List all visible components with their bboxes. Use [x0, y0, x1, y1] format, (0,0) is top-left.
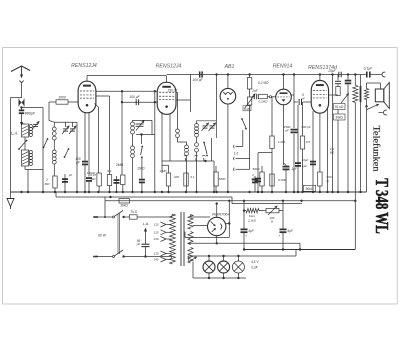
B+ rail: [105, 200, 355, 202]
resistor 0,1MOhm row: [270, 174, 274, 186]
wire: [337, 120, 339, 192]
wire filament: [216, 236, 218, 244]
boxed label 0,05: [243, 106, 251, 111]
svg-text:Fero: Fero: [249, 214, 256, 218]
svg-text:0,2A: 0,2A: [251, 266, 258, 270]
svg-text:150: 150: [154, 237, 159, 241]
lamp bus top: [188, 255, 296, 257]
contact rail: [162, 160, 214, 162]
wire: [27, 170, 29, 193]
tube V3 AB1 duodiode: [220, 88, 236, 104]
svg-text:Telefunken: Telefunken: [371, 126, 382, 172]
wire: [196, 152, 198, 192]
wire V5 top cap: [319, 75, 321, 81]
resistor 1MOhm grid leak: [271, 97, 273, 137]
wire switch riser: [242, 130, 244, 147]
wire lower to transformer: [122, 255, 124, 257]
resistor 0,5MOhm: [302, 102, 304, 136]
speaker LS1 magnet: [375, 89, 384, 102]
wire screen feed: [332, 75, 334, 193]
wire coupling riser: [121, 91, 123, 175]
resistor 500 Ohm cathode: [312, 160, 314, 192]
svg-text:200: 200: [173, 175, 179, 179]
svg-text:0,1MΩ: 0,1MΩ: [259, 100, 269, 104]
resistor 30kOhm in B+ rail: [119, 199, 130, 203]
transformer secondary tube heater: [188, 248, 193, 264]
band filter 1 top line: [133, 119, 153, 121]
resistor 1MOhm right: [337, 85, 339, 87]
wire V1 anode to V2 grid line A: [96, 90, 158, 92]
wire V1 screen: [96, 95, 110, 97]
wire: [98, 186, 100, 192]
coil rail cluster B: [54, 121, 77, 123]
svg-text:51 kΩ: 51 kΩ: [335, 105, 344, 109]
coil L7 detector primary: [196, 121, 198, 124]
tube V2 RENS12J4: [157, 82, 176, 114]
wire riser: [211, 138, 213, 161]
svg-text:µF: µF: [301, 97, 305, 101]
potentiometer tone with arrow: [341, 94, 349, 104]
wire anode right: [226, 223, 229, 225]
wire with arrow to coil: [21, 114, 23, 123]
wire V2 anode: [176, 91, 178, 93]
svg-text:0,1: 0,1: [107, 169, 112, 173]
wire V5 anode right: [329, 94, 338, 96]
svg-text:1µF: 1µF: [302, 164, 307, 168]
switch S1 wave band: [64, 156, 66, 158]
svg-text:1,6: 1,6: [234, 152, 239, 156]
wire V6 top: [216, 204, 218, 218]
svg-text:2,1kΩ: 2,1kΩ: [247, 219, 257, 223]
resistor 5000: [214, 172, 218, 186]
switch S wave band filter: [141, 146, 143, 148]
rail end riser: [213, 161, 215, 192]
svg-text:1000: 1000: [58, 96, 66, 100]
lamp La2: [218, 261, 230, 273]
wire V2 screen: [176, 99, 191, 101]
coil L1 RF coil: [53, 122, 55, 127]
capacitor 1uF anode: [297, 105, 299, 192]
switch S3: [203, 142, 205, 144]
capacitor uF feedback: [347, 75, 349, 80]
tube V4 REN914: [276, 89, 292, 105]
capacitor divider: [252, 179, 258, 181]
svg-text:Th.S: Th.S: [130, 210, 138, 214]
wire tube tops link: [87, 75, 166, 77]
capacitor 0,1uF top: [337, 75, 339, 81]
svg-text:125: 125: [154, 231, 159, 235]
capacitor 100pF series in bus: [199, 71, 201, 77]
wire lamp bus right: [295, 250, 297, 257]
svg-text:60 W: 60 W: [98, 234, 107, 238]
tube V5 RENS1374d: [311, 81, 328, 114]
switch S2 wave band: [43, 147, 45, 149]
svg-text:µF: µF: [69, 173, 73, 177]
wire riser to band filter 2: [216, 75, 218, 121]
frame band filter 2: [197, 120, 217, 122]
wire left rail top: [11, 97, 22, 99]
capacitor 4uF first: [243, 211, 245, 229]
wire frame right: [42, 108, 44, 193]
ground bus right corner: [366, 191, 368, 193]
coil loop secondary upper: [29, 125, 32, 128]
resistor 200: [166, 173, 170, 186]
resistor 0,1: [184, 173, 188, 186]
contact hook 2: [233, 157, 236, 160]
transformer secondary HV winding: [188, 215, 193, 230]
jack connector lower right: [383, 110, 386, 115]
tube V6 RGN7064: [208, 217, 226, 235]
contact fork 2: [195, 158, 197, 161]
contact hook 1: [233, 145, 236, 148]
svg-text:110: 110: [154, 223, 159, 227]
coil L3 band filter: [131, 122, 135, 126]
wire frame bottom: [28, 169, 43, 171]
svg-text:25pF: 25pF: [327, 69, 336, 73]
transformer frame: [367, 82, 381, 84]
switch linkage double bar: [117, 214, 119, 255]
antenna A1: [11, 66, 30, 72]
mains terminal lower: [94, 256, 99, 258]
wire to V2 grid: [155, 101, 158, 103]
wire left rail: [10, 98, 12, 193]
wire AB1 cathode: [227, 104, 229, 192]
wire coil to resistor: [53, 164, 55, 176]
resistor 1000 grid stopper: [56, 100, 68, 104]
tap arrow on heater winding: [189, 257, 197, 262]
wire V2 cathode: [161, 112, 163, 173]
svg-text:100 µF: 100 µF: [193, 78, 204, 82]
wire: [76, 122, 78, 192]
wire V5 cathode: [312, 111, 314, 160]
svg-text:10µF: 10µF: [302, 158, 309, 162]
resistor 0,2MOhm: [249, 75, 251, 78]
wire: [249, 89, 251, 97]
svg-text:50kΩ: 50kΩ: [252, 167, 260, 171]
resistor 0,1MOhm series: [258, 94, 267, 98]
wire V5 pin: [319, 113, 321, 172]
wire HV to anode lower: [193, 225, 208, 227]
wire top bus right: [370, 74, 382, 76]
resistor 1MOhm: [53, 176, 57, 188]
wire AB1 top: [227, 75, 229, 89]
svg-text:pF: pF: [284, 129, 289, 133]
capacitor 10uF cathode bypass: [310, 161, 316, 163]
capacitor 56pF: [142, 243, 150, 245]
svg-text:4,5 V: 4,5 V: [251, 260, 259, 264]
resistor zigzag output load: [354, 73, 356, 75]
svg-text:1 MΩ: 1 MΩ: [159, 169, 167, 173]
wire switch feed: [104, 201, 106, 217]
right riser: [354, 201, 356, 250]
variable capacitor antenna trimmer: [19, 100, 22, 106]
coil L4 secondary: [132, 134, 134, 146]
svg-text:RGN7064: RGN7064: [212, 211, 231, 216]
resistor 2MOhm: [121, 175, 125, 185]
svg-text:L.A.: L.A.: [11, 131, 18, 136]
capacitor 1uF cathode: [283, 166, 290, 168]
switch loop antenna: [18, 148, 20, 150]
svg-text:0,1µF: 0,1µF: [364, 67, 374, 71]
contact fork 3: [203, 158, 205, 161]
wire: [54, 188, 56, 192]
potentiometer hum with arrow: [367, 104, 379, 109]
resistor 0,15MOhm: [97, 173, 101, 186]
switch S5 arm: [241, 118, 243, 120]
svg-text:5000: 5000: [219, 177, 226, 181]
resistor 0,1MOhm: [107, 175, 111, 186]
svg-text:240: 240: [153, 258, 159, 262]
mains terminal upper: [94, 216, 99, 218]
svg-text:210: 210: [153, 252, 159, 256]
capacitor block mid: [116, 176, 118, 192]
wire V4 cathode: [283, 105, 285, 165]
svg-text:MΩ: MΩ: [91, 177, 96, 181]
wire coil link: [24, 137, 26, 150]
svg-text:30kΩ: 30kΩ: [335, 116, 343, 120]
jack connector top right: [382, 72, 385, 77]
svg-text:880pF: 880pF: [25, 112, 36, 116]
bus 2: [56, 196, 232, 198]
svg-text:L.A.: L.A.: [143, 222, 149, 226]
junction dots on ground bus: [20, 191, 22, 193]
wire: [172, 214, 173, 217]
capacitor 5000pF coupling: [294, 101, 298, 103]
wire pot down: [249, 105, 251, 169]
coil L6 IF transformer 2: [176, 129, 180, 133]
lamp bus bottom: [193, 277, 246, 279]
svg-text:MΩ: MΩ: [45, 182, 50, 186]
top bus: [167, 74, 367, 76]
capacitor 100pF coupling: [135, 99, 137, 105]
wire to transformer: [137, 216, 171, 218]
capacitor blocking: [64, 174, 66, 192]
wire V1 pin right: [95, 104, 99, 108]
resistor 50kOhm boxed label: [304, 185, 316, 191]
trimmer capacitor C3: [72, 122, 74, 127]
wire antenna branch: [22, 107, 44, 109]
heater line to right: [188, 242, 300, 244]
contact fork 1: [185, 158, 187, 161]
wire coil link: [53, 140, 55, 150]
svg-text:RENS12J4: RENS12J4: [71, 63, 97, 69]
choke field coil Fero 2,1kOhm: [243, 201, 245, 211]
wire V1 pin2: [88, 113, 90, 177]
svg-text:RENS12J4: RENS12J4: [156, 63, 182, 69]
grid line C: [122, 101, 155, 103]
lamp La1: [203, 261, 215, 273]
svg-text:100 µF: 100 µF: [129, 95, 140, 99]
wire V2 pin: [169, 114, 171, 162]
wire V4 anode: [291, 94, 294, 96]
wire coil bottom: [24, 166, 26, 170]
band filter 1 return line: [136, 134, 155, 136]
capacitor 2nF: [253, 94, 255, 100]
capacitor 100pF cathode: [82, 161, 88, 163]
svg-text:0,1: 0,1: [191, 175, 195, 179]
transformer T1 primary winding: [170, 214, 176, 264]
ground bus main: [11, 191, 367, 193]
ground symbol: [10, 192, 12, 199]
coil LA2 loop antenna lower: [21, 150, 28, 166]
wire to V4 grid: [267, 96, 269, 98]
wire: [186, 156, 188, 193]
capacitor 2500pF anode: [291, 129, 298, 131]
resistor 51kOhm boxed: [334, 104, 346, 110]
lamp La3: [232, 261, 244, 273]
coil L2 RF coil: [52, 150, 56, 154]
svg-text:30kΩ: 30kΩ: [120, 204, 128, 208]
capacitor 1uF row: [257, 153, 259, 192]
resistor 30kOhm boxed: [334, 114, 346, 120]
svg-text:0,2 MΩ: 0,2 MΩ: [258, 81, 269, 85]
wire center tap riser: [228, 201, 230, 238]
switch S6 mains lower: [113, 256, 115, 258]
wire: [68, 101, 78, 103]
coil L6b: [185, 145, 189, 149]
wire: [109, 186, 111, 193]
trimmer capacitor Ct1: [203, 125, 208, 127]
trimmer capacitor band filter: [136, 123, 144, 125]
band filter 1 right side: [151, 120, 153, 134]
svg-text:pF: pF: [136, 242, 141, 246]
arrow pilot: [145, 231, 147, 244]
capacitor block: [139, 179, 145, 181]
wire: [84, 165, 86, 192]
wire V5 anode: [327, 108, 329, 192]
page border: [3, 48, 398, 305]
wire V1 top cap: [86, 76, 88, 82]
wire coil jog: [178, 138, 187, 146]
wire V2 top cap: [166, 76, 168, 83]
speaker LS1 cone: [384, 83, 390, 109]
transformer core: [180, 212, 182, 266]
wire riser to band filter: [154, 91, 156, 192]
svg-text:+: +: [278, 234, 280, 238]
trimmer capacitor Ct2: [210, 125, 215, 127]
coil loop secondary lower: [29, 151, 32, 154]
contact hook 3: [233, 168, 236, 171]
wire V4 top: [283, 75, 285, 90]
wire speaker return: [366, 106, 368, 192]
svg-text:0,5: 0,5: [306, 140, 311, 144]
trimmer capacitor C2: [65, 122, 67, 127]
wire antenna lead: [21, 82, 23, 98]
svg-text:2nF: 2nF: [251, 89, 259, 93]
wire grid line V1: [49, 101, 56, 103]
potentiometer 100 Ohm: [259, 210, 266, 212]
svg-text:0,1MΩ: 0,1MΩ: [278, 178, 287, 182]
B+ rail lower: [232, 203, 302, 205]
potentiometer volume vertical with arrow: [247, 97, 251, 105]
svg-text:2MΩ: 2MΩ: [136, 167, 145, 171]
svg-text:AB1: AB1: [224, 64, 235, 70]
wire V1 cathode: [84, 113, 86, 161]
wire HV to anode upper: [190, 215, 192, 218]
fuse Th.S: [122, 216, 124, 218]
svg-text:T 348 WL: T 348 WL: [372, 178, 392, 234]
wire switch down: [141, 157, 143, 178]
coil LA1 loop antenna upper: [21, 124, 28, 137]
capacitor 880pF: [19, 109, 25, 111]
capacitor bar element: [360, 75, 362, 87]
transformer primary taps: [161, 222, 167, 225]
wire: [282, 201, 284, 229]
wire grid feed V1: [48, 105, 50, 121]
wire L4 down: [132, 158, 134, 192]
wire: [122, 185, 124, 193]
bottom return line: [244, 249, 355, 251]
svg-text:2MΩ: 2MΩ: [115, 163, 124, 167]
svg-text:1 MΩ: 1 MΩ: [278, 140, 286, 144]
transformer secondary rectifier heater: [188, 232, 193, 245]
resistor 50kOhm divider: [260, 172, 264, 186]
capacitor 4uF second: [280, 228, 287, 230]
transformer output primary coil: [364, 89, 368, 100]
svg-text:REN914: REN914: [273, 64, 293, 70]
svg-text:150 pF: 150 pF: [168, 89, 179, 93]
wire: [366, 100, 368, 107]
tube V1 RENS12J4: [78, 81, 96, 113]
switch S6 mains upper: [113, 216, 115, 218]
trimmer capacitor loop: [33, 123, 38, 125]
wire: [21, 107, 23, 110]
wire: [252, 96, 254, 98]
wire heater line: [185, 237, 229, 239]
coil L7b: [196, 137, 198, 143]
svg-text:+: +: [245, 234, 247, 238]
